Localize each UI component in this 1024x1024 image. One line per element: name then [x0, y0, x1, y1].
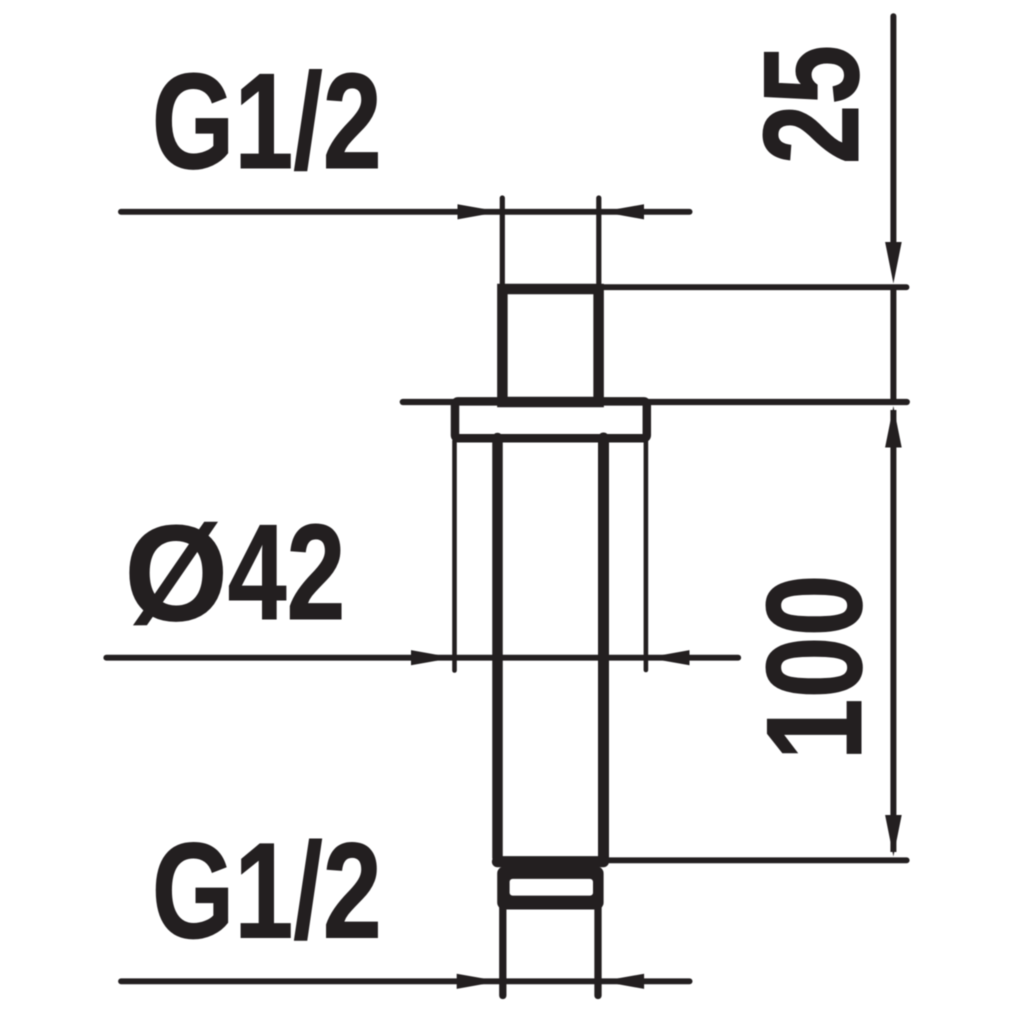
arrowhead top-right (points left)	[602, 204, 645, 219]
arrowhead top-left (points right)	[458, 204, 501, 219]
vertical dimension line right (upper segment)	[890, 16, 896, 245]
flange (escutcheon) outline	[455, 401, 647, 438]
dimension line G1/2 bottom	[121, 978, 690, 984]
vertical dimension line right (25 span segment)	[890, 290, 896, 400]
arrowhead bottom-right (points left)	[602, 974, 645, 989]
arrowhead diameter left (points right)	[411, 650, 454, 665]
arrowhead 25 top (points down)	[885, 242, 902, 284]
arrowhead 100 top (points up)	[885, 406, 902, 448]
reference line nipple top	[600, 284, 907, 290]
ceiling reference line	[403, 399, 907, 405]
arrowhead 100 bottom (points down)	[885, 815, 902, 857]
svg-text:25: 25	[735, 45, 887, 164]
svg-text:Ø: Ø	[124, 497, 228, 650]
svg-text:G1/2: G1/2	[152, 815, 382, 967]
collar nut window	[510, 879, 593, 896]
svg-text:G1/2: G1/2	[152, 45, 382, 197]
svg-text:42: 42	[228, 496, 346, 648]
bottom pipe wall left	[499, 906, 506, 996]
extension line top-left	[500, 198, 505, 290]
tube bottom edge	[498, 856, 604, 867]
extension line diameter right	[644, 441, 649, 670]
dimension line diameter 42	[106, 655, 738, 661]
tube wall right	[598, 438, 609, 858]
extension line top-right	[596, 198, 601, 290]
bottom pipe wall right	[594, 906, 601, 996]
arrowhead bottom-left (points right)	[457, 974, 500, 989]
arrowhead diameter right (points left)	[647, 650, 690, 665]
tube wall left	[492, 438, 503, 858]
dimension line G1/2 top	[121, 209, 690, 215]
vertical dimension line right (100 span segment)	[890, 410, 896, 852]
collar nut body	[497, 867, 603, 910]
extension line diameter left	[452, 441, 457, 671]
reference line tube bottom	[604, 857, 907, 863]
svg-text:100: 100	[739, 574, 891, 760]
threaded nipple outline (top rectangle)	[502, 289, 598, 402]
